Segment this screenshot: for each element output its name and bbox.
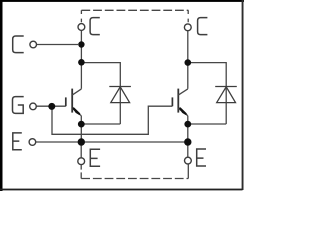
terminal circle E left [29,139,36,146]
terminal circle E bottom-left [78,158,85,165]
wire: left E below circle dash 1 [80,165,82,170]
terminal circle E bottom-right [185,157,192,164]
border frame left [0,0,3,191]
Q1 gate electrode [65,97,67,106]
D1 triangle [111,87,130,103]
junction dot: right collector / diode cathode [185,59,192,66]
wire: gate bus down and across to right IGBT [52,106,172,134]
junction dot: left emitter / E bus [78,138,85,145]
junction dot: C wire / left collector [78,41,84,47]
label C (top-right) [198,18,208,35]
border frame right [242,0,244,190]
label G (gate terminal) [13,97,24,114]
terminal circle C top-left [78,24,85,31]
border frame bottom [0,189,243,191]
wire: E bus [35,141,187,143]
terminal circle G [30,103,37,110]
diode D1 (left freewheel) [109,87,131,103]
junction dot: G wire / gate bus [48,103,55,110]
Q2 emitter arrowhead [180,108,186,114]
wire: right emitter down to E bus [187,116,189,142]
label E (bottom-left) [90,149,100,166]
junction dot: right emitter / diode anode [184,121,191,128]
border frame top [0,0,244,2]
wire: dashed collector link top [81,9,188,11]
D1 cathode bar [109,86,131,88]
wire: left E below circle to dashed corner [80,172,82,178]
wire: right collector column [187,31,189,89]
wire: right E drop below circle [187,164,189,178]
D2 triangle [217,87,236,103]
Q1 collector diagonal [72,89,81,95]
Q2 gate electrode [171,97,173,106]
terminal circle C top-right [184,24,191,31]
wire: left diode top link [81,63,120,124]
label E (bottom-right) [197,149,206,166]
junction dot: left collector / diode cathode [78,59,85,66]
wire: left C terminal to node [37,44,78,46]
Q1 emitter diagonal [72,108,81,115]
diode D2 (right freewheel) [215,87,237,103]
label E (left terminal) [13,133,22,150]
Q2 emitter diagonal [178,108,188,115]
IGBT Q2 (right) [172,89,187,116]
wire: G terminal to gate node [36,105,65,107]
junction dot: left emitter / diode anode [78,121,85,128]
label C (top-left) [90,18,100,35]
junction dot: right emitter / E bus [184,138,191,145]
wire: dashed emitter link bottom [81,178,188,180]
D2 cathode bar [215,86,237,88]
label C (left terminal) [13,36,24,53]
wire: left collector column [80,30,82,89]
Q1 emitter arrowhead [74,108,80,114]
wire: dashed drop to left C terminal [80,10,82,23]
wire: left E terminal drop [80,142,82,158]
Q2 body bar [177,89,179,113]
wire: right diode top link [188,63,226,124]
IGBT Q1 (left) [66,89,82,116]
wire: right E terminal drop [187,142,189,157]
terminal circle C left [30,41,37,48]
Q2 collector diagonal [178,89,188,95]
wire: dashed drop to right C terminal [187,10,189,24]
Q1 body bar [71,89,73,113]
wire: left emitter to diode anode [81,123,120,125]
wire: right emitter to diode anode [188,123,226,125]
wire: left emitter down to E bus [80,116,82,142]
